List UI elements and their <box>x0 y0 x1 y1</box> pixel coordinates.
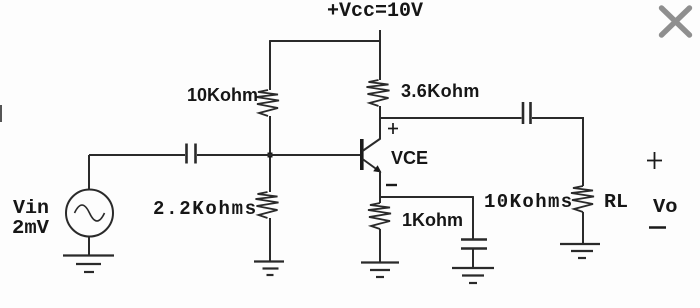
wire input horizontal to C1 <box>89 154 185 156</box>
left edge artifact <box>0 105 2 122</box>
transistor Q1 emitter stroke with arrow <box>363 159 382 173</box>
wire top rail <box>269 40 381 42</box>
svg-text:1Kohm: 1Kohm <box>402 210 463 230</box>
capacitor C2 <box>523 102 531 124</box>
svg-text:VCE: VCE <box>391 148 428 168</box>
svg-text:10Kohms: 10Kohms <box>484 191 574 213</box>
wire R4 bottom lead <box>379 229 381 262</box>
node base junction <box>268 153 273 158</box>
ground under R4 <box>361 263 399 278</box>
svg-text:2mV: 2mV <box>12 217 50 239</box>
label + collector <box>388 123 398 134</box>
wire C3 to ground <box>472 249 474 267</box>
svg-text:RL: RL <box>604 191 628 213</box>
transistor Q1 base bar <box>360 139 364 170</box>
resistor R2 2.2Kohms <box>256 192 279 218</box>
wire Vcc stub <box>379 30 381 41</box>
wire bypass cap lead <box>472 197 474 239</box>
ground under C3 <box>452 268 494 283</box>
wire source bottom lead <box>88 236 90 255</box>
wire R3 top lead <box>379 41 381 80</box>
resistor R4 1Kohm <box>368 203 391 229</box>
wire R4 top lead <box>379 197 381 203</box>
wire C1 to base <box>197 154 360 156</box>
source V1 sine <box>75 205 105 221</box>
wire emitter vertical <box>379 171 381 198</box>
svg-text:Vin: Vin <box>13 197 49 219</box>
source V1 circle <box>66 190 113 237</box>
svg-text:2.2Kohms: 2.2Kohms <box>153 198 258 220</box>
capacitor C3 bypass <box>461 240 487 249</box>
wire RL bottom lead <box>582 212 584 243</box>
wire collector lead <box>379 106 381 139</box>
wire collector branch to C2 <box>380 117 522 119</box>
wire emitter node to bypass cap <box>380 196 474 198</box>
wire R1 bottom to base node to R2 <box>269 116 271 192</box>
wire R1 top lead <box>269 41 271 90</box>
svg-text:Vo: Vo <box>653 196 678 218</box>
transistor Q1 collector stroke <box>363 139 381 152</box>
svg-text:+Vcc=10V: +Vcc=10V <box>327 0 423 23</box>
close button X <box>662 8 690 35</box>
ground under RL <box>560 244 600 258</box>
label - output <box>649 226 666 229</box>
wire C2 to RL corner <box>532 118 583 186</box>
wire source top lead <box>88 155 90 190</box>
ground under R2 <box>254 262 284 276</box>
wire R2 bottom lead <box>269 218 271 261</box>
svg-text:3.6Kohm: 3.6Kohm <box>401 81 480 101</box>
resistor R3 3.6Kohm <box>367 80 390 106</box>
label + output <box>647 152 662 169</box>
resistor RL 10Kohms <box>571 186 594 212</box>
ground under V1 <box>63 256 114 273</box>
resistor R1 10Kohm <box>256 90 279 116</box>
capacitor C1 <box>187 144 196 164</box>
label - emitter <box>386 184 397 186</box>
svg-text:10Kohm: 10Kohm <box>187 85 258 105</box>
